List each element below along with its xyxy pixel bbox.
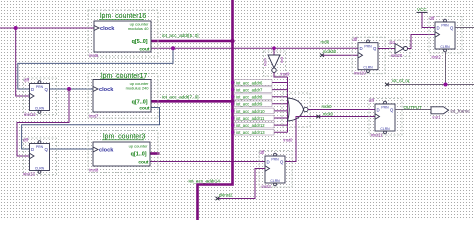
wire dff1 feedback [18,48,173,89]
wire nor row 3 [231,94,288,100]
node x marker iot_rd_rq [385,83,389,86]
node x marker mclk50 [320,54,324,57]
svg-text:inst3: inst3 [262,184,272,189]
wire nor row 2 [231,87,288,93]
bus q[1..0] counter3 stub [150,152,160,155]
inverter NOT2 [390,40,411,58]
wire cout17 to dff2 D [22,108,160,150]
svg-text:iot_acc_addr[7..0]: iot_acc_addr[7..0] [162,95,199,100]
svg-text:pkinst2: pkinst2 [219,193,233,198]
wire clk input net [0,28,94,96]
svg-text:iot_acc_addr14: iot_acc_addr14 [189,179,221,184]
svg-text:mck0: mck0 [322,104,333,109]
wire q1 to dff2 clock [17,89,69,156]
wire nor row 8 [231,129,288,135]
counter U6 lpm_counter16 [88,10,158,57]
svg-text:iot_acc_addr11: iot_acc_addr11 [236,116,265,121]
flip-flop U11 dff [369,98,402,135]
svg-text:up counter: up counter [129,144,149,149]
wire mck0 dff6 Q to dff5 clock [285,117,375,162]
flip-flop U13 dff [23,138,57,175]
svg-text:clock: clock [99,148,114,154]
svg-text:iot_acc_addr9: iot_acc_addr9 [236,102,263,107]
svg-text:NOT: NOT [264,57,268,66]
svg-text:inst11: inst11 [371,133,383,138]
svg-text:inst13: inst13 [23,172,35,177]
node junction q1 [67,87,71,91]
svg-text:modulus 240: modulus 240 [126,86,150,91]
svg-text:mck0: mck0 [323,112,334,117]
svg-text:clock: clock [100,26,115,32]
wire dff3 Q to not2 [378,48,395,50]
svg-text:cout: cout [139,46,150,52]
svg-text:cout: cout [139,106,150,112]
wire nor row 4 [231,101,288,107]
svg-text:inst7: inst7 [89,114,99,119]
counter U7 lpm_counter17 [88,73,158,118]
svg-text:dff: dff [353,37,359,42]
svg-text:inst1: inst1 [433,116,441,120]
svg-text:inst: inst [280,56,284,63]
svg-text:iot_acc_addr10: iot_acc_addr10 [236,109,265,114]
wire dff4 Q out [455,27,474,29]
svg-text:VCC: VCC [417,7,427,12]
svg-text:mclk50: mclk50 [323,49,337,54]
svg-text:i53: i53 [390,40,396,45]
output port iot_frame [431,107,470,114]
bus q[5..0] counter16 [151,40,233,43]
node x marker mck0 [316,115,320,118]
svg-text:inst12: inst12 [24,112,36,117]
svg-text:clock: clock [99,87,114,93]
wire nor row 5 [231,108,288,114]
wire mck0 nor output to dff5 D [308,109,375,111]
svg-text:inst9: inst9 [281,72,291,77]
svg-text:q[5..0]: q[5..0] [132,39,148,45]
wire cout16 net [151,47,358,49]
wire nor row 7 [231,122,288,128]
wire mclk50 to dff3 clock [322,54,358,56]
svg-text:mclk: mclk [321,40,331,45]
svg-text:iot_acc_addr[5..0]: iot_acc_addr[5..0] [162,33,199,38]
wire pkinst2 to dff6 clock [218,169,266,199]
wire dff1 Q to counter17 clock [50,88,94,90]
svg-text:inst6: inst6 [89,53,99,58]
bus q[7..0] counter17 [151,100,233,103]
svg-text:inst10: inst10 [354,71,366,76]
nor gate inputs rail [287,77,289,132]
svg-text:q[1..0]: q[1..0] [131,152,147,158]
node x marker pkinst2 [216,197,220,200]
svg-text:modulus 40: modulus 40 [128,26,149,31]
svg-text:dff: dff [23,138,29,143]
node junction not1 tap [272,46,276,50]
wire dff2 Q to counter3 clock [50,148,94,150]
svg-text:iot_acc_addr13: iot_acc_addr13 [236,130,265,135]
svg-text:inst20: inst20 [391,53,403,58]
wire not2 out to dff4 clock [408,35,436,49]
svg-text:iot_frame: iot_frame [451,109,471,114]
inverter NOT1 vertical [264,48,288,77]
svg-text:inst2: inst2 [432,55,442,60]
flip-flop U3 dff [259,150,292,187]
svg-text:cout: cout [138,160,149,166]
node junction iot_rd_rq [444,83,448,87]
svg-text:iot_acc_addr7: iot_acc_addr7 [236,88,263,93]
svg-text:dff: dff [260,150,266,155]
power VCC [417,7,436,28]
svg-text:iot_acc_addr6: iot_acc_addr6 [236,80,263,85]
wire dff5 Q to output port [395,109,431,111]
node junction cout16 [171,46,175,50]
counter U8 lpm_counter3 [88,131,158,173]
wire nor row 6 [231,115,288,121]
svg-text:OUTPUT: OUTPUT [404,105,422,110]
svg-text:iot_rd_rq: iot_rd_rq [392,78,410,83]
svg-text:inst0: inst0 [284,138,294,143]
svg-text:iot_acc_addr12: iot_acc_addr12 [236,123,265,128]
bus iot_acc_addr vertical [198,0,233,220]
svg-text:q[7..0]: q[7..0] [132,99,148,105]
nor gate U0 [282,93,310,127]
wire nor row 1 [231,80,288,86]
flip-flop U2 dff [429,16,462,53]
wire cout3 to dff6 D [150,161,265,163]
flip-flop U10 dff [352,37,385,74]
svg-text:iot_acc_addr8: iot_acc_addr8 [236,95,263,100]
svg-text:inst8: inst8 [89,168,99,173]
svg-text:dff: dff [369,98,375,103]
svg-text:dff: dff [24,78,30,83]
wire iot_rd_rq [387,52,474,85]
flip-flop U12 dff [24,78,57,115]
node junction clk [14,26,18,30]
svg-text:dff: dff [430,16,436,21]
